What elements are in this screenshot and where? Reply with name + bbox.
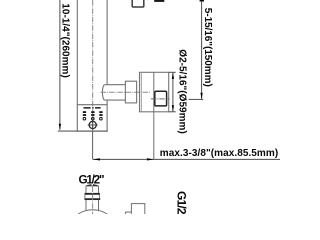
G1/2 width left arrow [86,184,92,186]
dimension 10-1/4 bottom arrow [59,124,61,131]
escutcheon divider line (extends down to max dimension line) [153,72,155,159]
G1/2 width right arrow [93,184,99,186]
extension line at valve body bottom [58,130,108,132]
collar nut on arm [125,81,136,103]
side outlet step [126,212,132,214]
svg-text:10-1/4"(260mm): 10-1/4"(260mm) [60,3,71,78]
inlet pipe right side lower [98,200,100,211]
shower column pipe left edge [76,0,78,105]
label strip right bar [95,107,101,109]
cut-off square bracket at top [132,0,144,7]
thread band bottom thick line [85,198,101,200]
side outlet fitting outline bottom right [131,204,144,214]
max depth dimension horizontal line [93,158,280,160]
dimension 5-15/16"(150mm) top tick [200,0,204,2]
dimension 10-1/4"(260mm) vertical line [59,0,61,130]
knob horizontal centerline [151,98,170,100]
dimension 5-15/16 bottom arrow [200,93,202,100]
max depth left arrow [93,158,100,160]
handle knob square [155,91,167,106]
thread band top thick line [85,193,100,195]
extension tick at knob centerline [189,98,204,100]
inlet pipe right side upper [98,186,100,193]
max depth right arrow [147,158,154,160]
inlet pipe top edge [86,185,99,187]
escutcheon face inner line [140,72,142,112]
diameter dimension vertical line [172,72,174,112]
label strip left bar [84,107,91,109]
pipe vertical centerline [92,0,94,131]
tiny marking cluster right [99,111,102,120]
diameter dimension bottom extension [169,111,176,113]
svg-text:G1/2": G1/2" [79,173,105,186]
valve trim body box [77,105,107,131]
diameter dimension down arrow [172,105,174,111]
inlet pipe left side upper [85,186,87,193]
tiny marking cluster middle [91,111,94,120]
valve dome arc [78,210,107,214]
wall arm rounded left cap [102,85,104,100]
arm horizontal centerline [101,91,150,93]
screw cross horizontal [88,124,98,126]
wall arm bottom edge [105,99,126,101]
svg-text:G1/2: G1/2 [175,191,189,214]
svg-text:5-15/16"(150mm): 5-15/16"(150mm) [202,8,213,87]
leader line from valve centerline down [92,131,94,159]
inlet centerline [92,187,94,215]
dimension 5-15/16 vertical line [201,1,203,99]
escutcheon body outline [140,72,169,112]
svg-text:max.3-3/8"(max.85.5mm): max.3-3/8"(max.85.5mm) [160,148,278,159]
diameter dimension top extension [169,71,176,73]
thread band outline [85,193,100,199]
wall arm top edge [105,84,126,86]
screw head circle [89,121,96,128]
screw cross vertical [92,120,94,130]
tiny marking cluster left [83,111,86,120]
label strip middle dot [92,107,94,108]
diameter dimension up arrow [172,73,174,79]
shower column pipe right edge upper segment [106,0,108,85]
shower column pipe right edge lower segment [106,100,108,105]
svg-text:Ø2-5/16"(Ø59mm): Ø2-5/16"(Ø59mm) [176,49,187,134]
cut-off showerhead black bar at top [154,0,164,2]
inlet pipe left side lower [85,200,87,211]
